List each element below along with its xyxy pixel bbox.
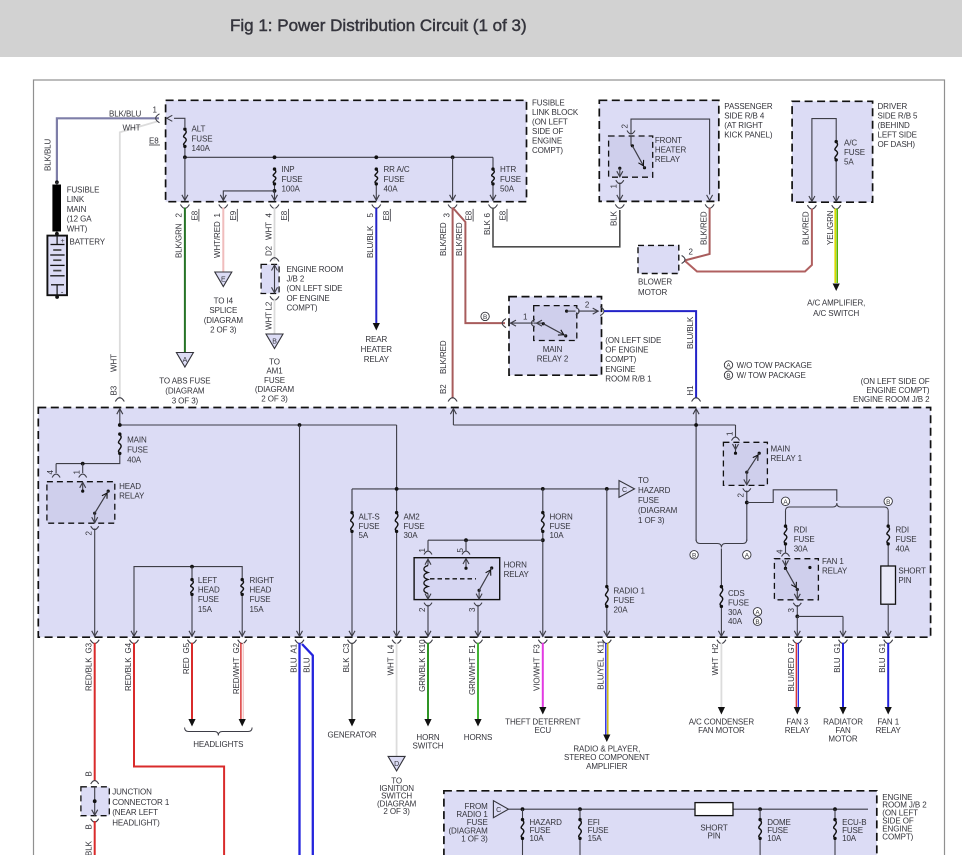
svg-text:E8: E8 [190, 210, 199, 220]
svg-text:ROOM R/B 1: ROOM R/B 1 [605, 374, 652, 383]
svg-text:15A: 15A [588, 834, 603, 843]
svg-text:BLK/RED: BLK/RED [802, 211, 811, 245]
svg-text:C: C [622, 487, 627, 494]
svg-text:(BEHIND: (BEHIND [878, 121, 911, 130]
svg-text:RED/BLK: RED/BLK [85, 657, 94, 691]
svg-text:FUSE: FUSE [404, 522, 425, 531]
svg-text:ALT-S: ALT-S [359, 513, 380, 522]
svg-text:WHT): WHT) [67, 225, 88, 234]
svg-text:20A: 20A [614, 605, 629, 614]
svg-text:E9: E9 [229, 210, 238, 220]
svg-text:E8: E8 [149, 137, 159, 146]
svg-text:2: 2 [585, 301, 590, 310]
svg-text:HORN: HORN [550, 513, 573, 522]
svg-text:B: B [272, 339, 277, 346]
svg-text:(DIAGRAM: (DIAGRAM [204, 316, 244, 325]
svg-text:2: 2 [689, 248, 694, 257]
svg-text:WHT: WHT [264, 312, 273, 330]
svg-text:Fig 1: Power Distribution Circ: Fig 1: Power Distribution Circuit (1 of … [230, 16, 527, 35]
svg-text:F1: F1 [468, 644, 477, 654]
svg-text:40A: 40A [127, 456, 142, 465]
svg-text:GENERATOR: GENERATOR [327, 731, 376, 740]
svg-text:OF ENGINE: OF ENGINE [287, 294, 330, 303]
svg-text:2: 2 [418, 607, 427, 612]
svg-text:RR A/C: RR A/C [384, 165, 410, 174]
svg-text:RADIO 1: RADIO 1 [614, 587, 646, 596]
svg-text:HEADLIGHT): HEADLIGHT) [112, 818, 160, 827]
svg-text:BLK: BLK [483, 219, 492, 235]
svg-text:1: 1 [73, 470, 82, 475]
svg-text:E8: E8 [382, 210, 391, 220]
svg-text:BLU/YEL: BLU/YEL [597, 657, 606, 690]
svg-text:BLK/GRN: BLK/GRN [175, 223, 184, 258]
svg-text:RELAY: RELAY [655, 155, 681, 164]
svg-text:HEATER: HEATER [361, 345, 393, 354]
svg-text:B2: B2 [439, 384, 448, 394]
svg-text:3 OF 3): 3 OF 3) [172, 396, 199, 405]
svg-text:10A: 10A [842, 834, 857, 843]
svg-text:(AT RIGHT: (AT RIGHT [724, 121, 763, 130]
svg-text:A: A [183, 357, 188, 364]
svg-text:FUSE: FUSE [500, 175, 521, 184]
svg-text:ENGINE: ENGINE [532, 137, 562, 146]
svg-text:ENGINE ROOM J/B 2: ENGINE ROOM J/B 2 [853, 395, 930, 404]
svg-text:BLK: BLK [342, 657, 351, 673]
svg-text:F3: F3 [533, 644, 542, 654]
svg-text:10A: 10A [550, 531, 565, 540]
svg-text:15A: 15A [250, 605, 265, 614]
svg-text:WHT: WHT [123, 124, 141, 133]
svg-text:ECU: ECU [535, 726, 552, 735]
svg-text:(ON LEFT: (ON LEFT [532, 118, 568, 127]
svg-text:2: 2 [737, 493, 746, 498]
svg-text:FUSE: FUSE [728, 598, 749, 607]
svg-text:2 OF 3): 2 OF 3) [261, 394, 288, 403]
svg-text:HTR: HTR [500, 165, 516, 174]
svg-text:HORNS: HORNS [464, 733, 492, 742]
svg-text:G5: G5 [182, 642, 191, 653]
svg-text:DRIVER: DRIVER [878, 102, 908, 111]
svg-text:FUSE: FUSE [896, 535, 917, 544]
svg-text:B: B [886, 499, 890, 506]
svg-text:40A: 40A [728, 617, 743, 626]
svg-text:A/C AMPLIFIER,: A/C AMPLIFIER, [807, 299, 865, 308]
svg-text:COMPT): COMPT) [605, 355, 636, 364]
svg-text:LINK: LINK [67, 195, 85, 204]
svg-text:HEAD: HEAD [198, 586, 220, 595]
svg-text:E: E [221, 277, 226, 284]
svg-text:MOTOR: MOTOR [638, 288, 667, 297]
svg-text:(DIAGRAM: (DIAGRAM [165, 386, 205, 395]
svg-text:FUSE: FUSE [614, 596, 635, 605]
svg-text:REAR: REAR [365, 335, 387, 344]
svg-text:RED/BLK: RED/BLK [124, 657, 133, 691]
svg-text:K11: K11 [597, 640, 606, 654]
svg-text:4: 4 [264, 213, 273, 218]
svg-text:MAIN: MAIN [771, 445, 791, 454]
svg-text:FUSE: FUSE [359, 522, 380, 531]
svg-text:ENGINE ROOM: ENGINE ROOM [287, 265, 344, 274]
svg-text:G2: G2 [232, 642, 241, 653]
svg-text:5A: 5A [844, 158, 854, 167]
svg-text:G7: G7 [787, 642, 796, 653]
svg-text:B: B [85, 824, 94, 829]
svg-text:(NEAR LEFT: (NEAR LEFT [112, 808, 158, 817]
svg-text:HEADLIGHTS: HEADLIGHTS [193, 740, 243, 749]
svg-text:HAZARD: HAZARD [638, 486, 671, 495]
svg-text:1 OF 3): 1 OF 3) [638, 516, 665, 525]
svg-text:GRN/WHT: GRN/WHT [468, 657, 477, 695]
svg-text:10A: 10A [767, 834, 782, 843]
svg-text:FUSE: FUSE [250, 595, 271, 604]
svg-text:TO I4: TO I4 [214, 297, 234, 306]
svg-text:W/O TOW PACKAGE: W/O TOW PACKAGE [737, 361, 812, 370]
svg-text:H2: H2 [711, 643, 720, 654]
svg-text:1: 1 [523, 313, 528, 322]
svg-text:BLK: BLK [85, 840, 94, 855]
svg-text:BLK/RED: BLK/RED [439, 340, 448, 374]
svg-text:RELAY: RELAY [876, 726, 902, 735]
svg-text:2 OF 3): 2 OF 3) [383, 807, 410, 816]
svg-text:KICK PANEL): KICK PANEL) [724, 130, 773, 139]
svg-text:10A: 10A [530, 834, 545, 843]
svg-text:RELAY 1: RELAY 1 [771, 454, 803, 463]
svg-text:OF ENGINE: OF ENGINE [605, 346, 648, 355]
svg-text:ALT: ALT [192, 125, 206, 134]
svg-text:BLU: BLU [878, 657, 887, 673]
svg-text:E8: E8 [280, 210, 289, 220]
svg-text:BLK/RED: BLK/RED [455, 222, 464, 256]
svg-text:COMPT): COMPT) [287, 303, 318, 312]
svg-text:5A: 5A [359, 531, 369, 540]
svg-text:K10: K10 [418, 639, 427, 654]
svg-text:WHT: WHT [386, 657, 395, 675]
svg-text:LINK BLOCK: LINK BLOCK [532, 108, 579, 117]
svg-text:SIDE R/B 5: SIDE R/B 5 [878, 111, 919, 120]
svg-text:BLU: BLU [303, 657, 312, 673]
svg-text:(ON LEFT SIDE: (ON LEFT SIDE [287, 284, 343, 293]
svg-text:RDI: RDI [896, 526, 909, 535]
svg-text:FAN MOTOR: FAN MOTOR [698, 726, 745, 735]
svg-text:FAN 1: FAN 1 [822, 557, 844, 566]
svg-text:RADIO & PLAYER,: RADIO & PLAYER, [573, 745, 640, 754]
svg-text:1: 1 [153, 106, 158, 115]
svg-text:BLU/BLK: BLU/BLK [366, 225, 375, 258]
svg-text:A1: A1 [289, 643, 298, 653]
svg-text:SIDE R/B 4: SIDE R/B 4 [724, 111, 765, 120]
svg-text:MAIN: MAIN [67, 205, 87, 214]
svg-text:BLU: BLU [289, 657, 298, 673]
svg-text:(DIAGRAM: (DIAGRAM [255, 385, 295, 394]
svg-text:D2: D2 [264, 245, 273, 256]
svg-text:1: 1 [213, 213, 222, 218]
svg-text:RELAY: RELAY [364, 355, 390, 364]
svg-text:FUSE: FUSE [127, 446, 148, 455]
svg-text:RIGHT: RIGHT [250, 576, 275, 585]
svg-text:SHORT: SHORT [898, 567, 926, 576]
svg-text:FUSE: FUSE [198, 595, 219, 604]
svg-text:40A: 40A [896, 544, 911, 553]
svg-text:L4: L4 [386, 644, 395, 653]
svg-text:PASSENGER: PASSENGER [724, 102, 773, 111]
svg-text:(ON LEFT SIDE OF: (ON LEFT SIDE OF [861, 377, 930, 386]
svg-text:L2: L2 [264, 301, 273, 310]
svg-text:BLK: BLK [610, 210, 619, 226]
svg-text:40A: 40A [384, 185, 399, 194]
svg-text:3: 3 [442, 213, 451, 218]
svg-text:LEFT: LEFT [198, 576, 217, 585]
svg-text:FUSE: FUSE [550, 522, 571, 531]
svg-text:B3: B3 [110, 385, 119, 395]
svg-text:W/ TOW PACKAGE: W/ TOW PACKAGE [737, 371, 806, 380]
svg-text:OF DASH): OF DASH) [878, 140, 916, 149]
svg-text:CDS: CDS [728, 589, 745, 598]
svg-text:FUSE: FUSE [638, 496, 659, 505]
svg-text:HORN: HORN [504, 561, 527, 570]
svg-text:G4: G4 [124, 642, 133, 653]
svg-text:-: - [61, 288, 64, 297]
svg-text:RELAY: RELAY [119, 492, 145, 501]
svg-text:FUSE: FUSE [192, 134, 213, 143]
svg-text:SIDE OF: SIDE OF [532, 127, 564, 136]
svg-text:WHT/RED: WHT/RED [213, 221, 222, 258]
svg-text:HEATER: HEATER [655, 145, 687, 154]
svg-text:3: 3 [468, 607, 477, 612]
svg-text:RELAY: RELAY [504, 570, 530, 579]
svg-text:E8: E8 [465, 210, 474, 220]
svg-text:2 OF 3): 2 OF 3) [210, 326, 237, 335]
svg-text:30A: 30A [794, 544, 809, 553]
svg-text:BLK/BLU: BLK/BLU [44, 138, 53, 171]
svg-text:(12 GA: (12 GA [67, 215, 93, 224]
svg-text:2: 2 [175, 213, 184, 218]
svg-text:TO ABS FUSE: TO ABS FUSE [159, 377, 210, 386]
svg-text:MAIN: MAIN [543, 345, 563, 354]
svg-text:MAIN: MAIN [127, 436, 147, 445]
svg-text:50A: 50A [500, 185, 515, 194]
svg-text:FUSIBLE: FUSIBLE [532, 99, 565, 108]
svg-text:BLU/RED: BLU/RED [787, 657, 796, 691]
svg-text:PIN: PIN [898, 576, 911, 585]
svg-text:COMPT): COMPT) [882, 832, 913, 841]
svg-text:WHT: WHT [711, 657, 720, 675]
svg-text:(DIAGRAM: (DIAGRAM [638, 506, 678, 515]
svg-text:BLU/BLK: BLU/BLK [686, 316, 695, 349]
svg-text:3: 3 [787, 608, 796, 613]
svg-text:AM1: AM1 [266, 367, 283, 376]
svg-text:ENGINE COMPT): ENGINE COMPT) [866, 386, 930, 395]
svg-text:1 OF 3): 1 OF 3) [461, 834, 488, 843]
svg-text:A/C SWITCH: A/C SWITCH [813, 309, 859, 318]
svg-text:FUSE: FUSE [264, 376, 285, 385]
svg-text:FUSE: FUSE [282, 175, 303, 184]
svg-text:100A: 100A [282, 185, 301, 194]
svg-text:RELAY: RELAY [822, 567, 848, 576]
svg-text:B: B [692, 552, 696, 559]
svg-text:H1: H1 [686, 385, 695, 396]
svg-text:E8: E8 [499, 210, 508, 220]
svg-text:(ON LEFT SIDE: (ON LEFT SIDE [605, 336, 661, 345]
svg-text:SPLICE: SPLICE [209, 306, 237, 315]
svg-text:BLU: BLU [833, 657, 842, 673]
svg-text:15A: 15A [198, 605, 213, 614]
svg-text:D: D [394, 761, 399, 768]
svg-text:A/C: A/C [844, 139, 857, 148]
svg-text:FUSE: FUSE [844, 148, 865, 157]
svg-text:G1: G1 [878, 642, 887, 653]
svg-text:FUSE: FUSE [384, 175, 405, 184]
svg-text:BLK/RED: BLK/RED [439, 222, 448, 256]
svg-text:VIO/WHT: VIO/WHT [533, 657, 542, 691]
svg-text:2: 2 [85, 531, 94, 536]
svg-text:HEAD: HEAD [250, 586, 272, 595]
svg-text:COMPT): COMPT) [532, 146, 563, 155]
svg-text:WHT: WHT [264, 222, 273, 240]
svg-text:WHT: WHT [110, 354, 119, 372]
svg-text:30A: 30A [404, 531, 419, 540]
svg-text:B: B [755, 619, 759, 626]
svg-text:LEFT SIDE: LEFT SIDE [878, 130, 917, 139]
svg-text:MOTOR: MOTOR [828, 735, 857, 744]
svg-text:BLOWER: BLOWER [638, 278, 672, 287]
svg-text:CONNECTOR 1: CONNECTOR 1 [112, 798, 170, 807]
svg-text:4: 4 [775, 549, 784, 554]
svg-text:STEREO COMPONENT: STEREO COMPONENT [564, 753, 650, 762]
svg-text:YEL/GRN: YEL/GRN [826, 210, 835, 245]
svg-text:B: B [85, 771, 94, 776]
svg-text:FUSE: FUSE [794, 535, 815, 544]
svg-text:1: 1 [610, 184, 619, 189]
svg-text:6: 6 [483, 213, 492, 218]
svg-text:AMPLIFIER: AMPLIFIER [586, 762, 628, 771]
svg-text:INP: INP [282, 165, 295, 174]
svg-text:BATTERY: BATTERY [70, 238, 106, 247]
svg-text:J/B 2: J/B 2 [287, 275, 305, 284]
svg-text:C: C [496, 807, 501, 814]
svg-text:RELAY 2: RELAY 2 [537, 355, 569, 364]
svg-text:ENGINE: ENGINE [605, 365, 635, 374]
svg-text:HEAD: HEAD [119, 482, 141, 491]
svg-text:RED: RED [182, 657, 191, 674]
svg-text:140A: 140A [192, 144, 211, 153]
svg-text:BLK/BLU: BLK/BLU [109, 110, 142, 119]
svg-text:RED/WHT: RED/WHT [232, 657, 241, 694]
svg-text:G3: G3 [85, 642, 94, 653]
svg-text:RDI: RDI [794, 526, 807, 535]
svg-text:SWITCH: SWITCH [413, 742, 444, 751]
svg-text:TO: TO [269, 358, 280, 367]
svg-text:1: 1 [725, 431, 734, 436]
svg-text:2: 2 [621, 124, 630, 129]
svg-text:PIN: PIN [707, 832, 720, 841]
svg-text:5: 5 [366, 213, 375, 218]
svg-text:4: 4 [46, 470, 55, 475]
svg-text:C3: C3 [342, 643, 351, 654]
svg-text:+: + [61, 238, 65, 245]
svg-text:FUSIBLE: FUSIBLE [67, 185, 100, 194]
svg-text:G1: G1 [833, 642, 842, 653]
svg-text:TO: TO [638, 476, 649, 485]
svg-text:GRN/BLK: GRN/BLK [418, 657, 427, 692]
svg-text:30A: 30A [728, 608, 743, 617]
svg-text:B: B [483, 314, 487, 321]
svg-text:AM2: AM2 [404, 513, 421, 522]
svg-text:B: B [726, 373, 730, 380]
svg-text:FRONT: FRONT [655, 136, 682, 145]
svg-text:JUNCTION: JUNCTION [112, 788, 152, 797]
svg-text:RELAY: RELAY [785, 726, 811, 735]
svg-text:BLK/RED: BLK/RED [699, 211, 708, 245]
